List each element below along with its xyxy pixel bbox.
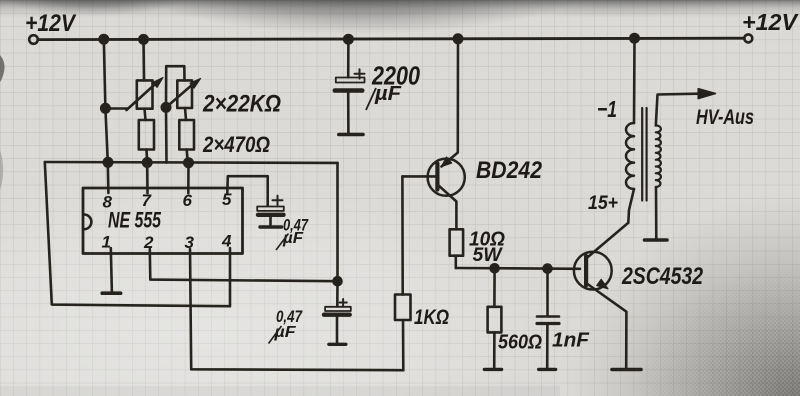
transformer T1 secondary winding <box>656 125 661 187</box>
potentiometer P1 22K <box>142 39 145 80</box>
svg-text:7: 7 <box>142 191 153 210</box>
wire pin1 lead <box>111 248 112 293</box>
svg-text:µF: µF <box>374 83 402 105</box>
node A-wiper <box>101 104 109 112</box>
svg-text:HV-Aus: HV-Aus <box>696 106 754 129</box>
node rail-A <box>100 35 108 43</box>
node bus-8 <box>104 158 112 166</box>
node bus-7 <box>143 158 151 166</box>
node B-wiper <box>162 103 170 111</box>
svg-text:2: 2 <box>143 233 154 252</box>
op-amp U1 NE555 body <box>83 188 243 254</box>
terminal left <box>29 35 38 44</box>
wire secondary bottom <box>655 187 658 239</box>
wire +12V rail <box>38 38 744 39</box>
ground pin1 <box>102 291 120 295</box>
flourish C1 <box>366 88 376 110</box>
node rail-T1 <box>630 34 638 42</box>
svg-text:1KΩ: 1KΩ <box>414 306 449 329</box>
ground C2 <box>260 225 282 228</box>
scan shade bottom-right <box>560 180 800 396</box>
svg-text:1nF: 1nF <box>552 330 590 352</box>
transistor Q2 2SC4532 <box>574 252 612 290</box>
svg-text:2SC4532: 2SC4532 <box>621 263 703 290</box>
capacitor C4 1nF <box>546 269 549 316</box>
svg-text:5W: 5W <box>473 245 504 266</box>
transformer T1 core <box>642 108 646 201</box>
scan shadow top <box>0 0 800 18</box>
wire left loop to pin4 <box>45 162 230 306</box>
node rail-Q1 <box>454 35 462 43</box>
node bus-6 <box>184 159 192 167</box>
transformer T1 primary winding <box>626 123 634 189</box>
transistor Q1 BD242 <box>428 159 465 196</box>
svg-text:+12V: +12V <box>742 9 799 35</box>
svg-text:1: 1 <box>102 233 111 252</box>
plus C1 <box>355 69 365 78</box>
node pin2-C3 <box>334 277 342 285</box>
wire bus pins 8-7-6 <box>45 161 338 164</box>
wire P2 top loop <box>166 66 185 162</box>
svg-text:+12V: +12V <box>25 10 77 37</box>
flourish C2 <box>276 234 289 251</box>
wire base line to Q2 <box>456 267 580 270</box>
wire line A rail to pin8 <box>104 39 109 193</box>
svg-text:−1: −1 <box>597 96 617 122</box>
svg-text:2×470Ω: 2×470Ω <box>202 132 270 157</box>
svg-text:6: 6 <box>183 191 193 210</box>
ground Q2 emitter <box>612 368 641 372</box>
svg-text:5: 5 <box>222 190 232 209</box>
wire wiper stub P1 <box>105 107 127 110</box>
ground R5 <box>484 368 501 371</box>
resistor R4 1K <box>402 320 405 370</box>
ground C1 <box>339 133 363 137</box>
wire pin6 lead <box>187 163 190 193</box>
svg-text:8: 8 <box>103 193 113 212</box>
resistor R3 10ohm 5W <box>450 229 464 255</box>
flourish C3 <box>269 326 282 344</box>
node base-1nF <box>544 265 552 273</box>
HV arrow <box>698 89 715 99</box>
plus C2 <box>273 196 283 205</box>
svg-text:BD242: BD242 <box>476 157 543 184</box>
ground C3 <box>329 343 346 346</box>
potentiometer P2 22K <box>177 80 192 108</box>
wire secondary top to HV out <box>656 94 699 126</box>
capacitor C1 2200uF <box>347 39 350 77</box>
resistor R1 470 <box>145 109 146 120</box>
wire pin7 lead <box>146 163 149 194</box>
wire pin2 lead <box>150 249 338 281</box>
plus C3 <box>340 299 347 306</box>
resistor R2 470 <box>185 108 186 120</box>
svg-text:NE 555: NE 555 <box>108 208 162 233</box>
svg-text:3: 3 <box>185 233 195 252</box>
svg-text:4: 4 <box>221 232 232 251</box>
svg-text:560Ω: 560Ω <box>498 332 542 354</box>
transformer T1 primary lead <box>633 38 636 123</box>
ground C4 <box>539 368 556 371</box>
node rail-C1 <box>344 35 352 43</box>
capacitor C3 0.47uF bottom <box>325 307 351 311</box>
svg-text:2×22KΩ: 2×22KΩ <box>202 91 281 118</box>
ground secondary <box>645 238 668 242</box>
node base-560 <box>491 264 499 272</box>
wire pin3 lead to bottom bus <box>190 249 403 370</box>
resistor R5 560 <box>493 268 496 307</box>
node rail-P1 <box>139 35 147 43</box>
wire primary bottom to Q2 collector <box>628 189 634 223</box>
notch <box>84 215 91 230</box>
svg-text:15+: 15+ <box>588 193 618 214</box>
left edge smudge <box>0 55 5 82</box>
terminal right <box>744 34 752 42</box>
capacitor C2 0.47uF at pin5 <box>227 176 267 205</box>
wire bus right drop to C3 node <box>336 163 339 307</box>
